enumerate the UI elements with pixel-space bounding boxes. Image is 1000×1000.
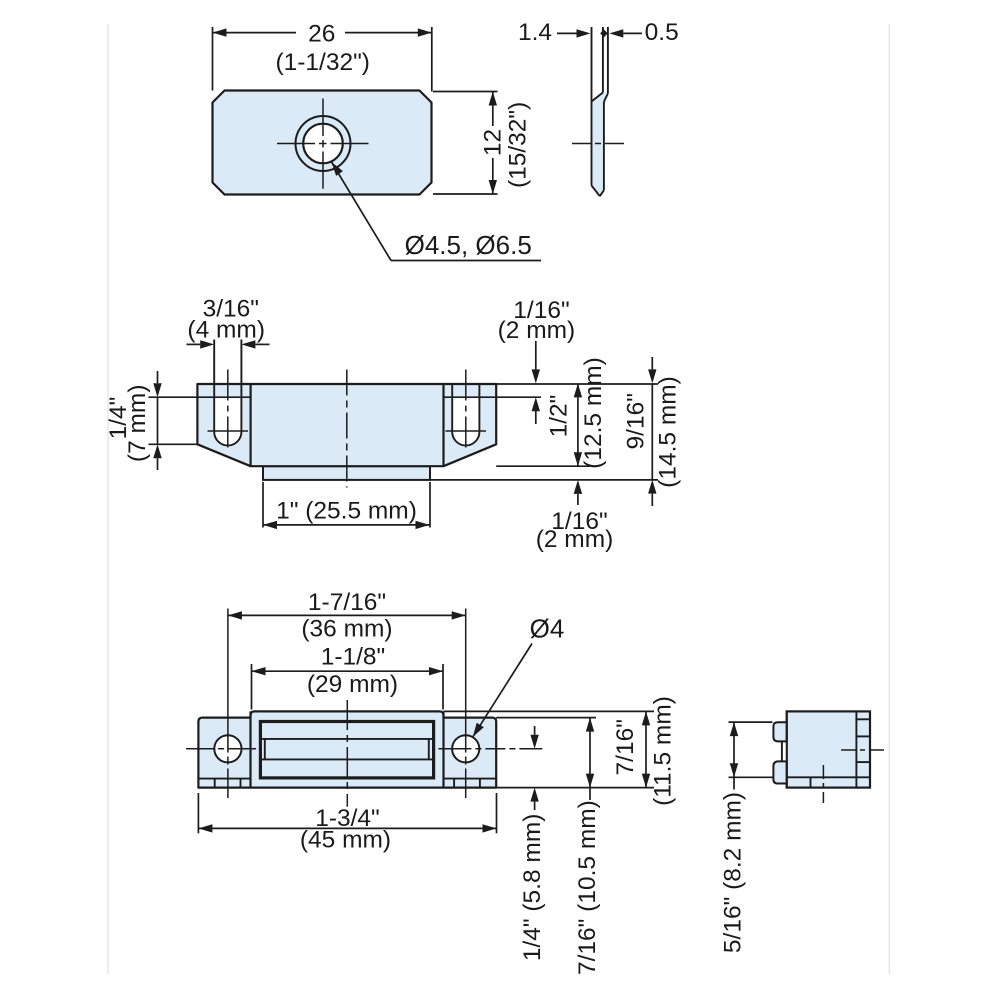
end view main block xyxy=(787,711,870,787)
center section side edges xyxy=(251,711,444,787)
flange base lines xyxy=(198,778,496,780)
leader to hole: Ø4.5, Ø6.5 xyxy=(332,162,542,261)
plate profile inner line (1.4/0.5 boundary) xyxy=(602,27,604,93)
left hole vertical centerline (36mm extension) xyxy=(227,609,229,799)
svg-text:(11.5 mm): (11.5 mm) xyxy=(650,696,677,806)
left slot vertical centerline xyxy=(227,370,229,453)
plate profile left edge xyxy=(591,27,593,186)
dimension 1.4 xyxy=(518,19,591,46)
hole inner circle xyxy=(303,124,343,164)
left slot white fill xyxy=(214,398,241,445)
dimension 26 (1-1/32") xyxy=(213,21,432,92)
shared boundary diamond marker xyxy=(600,29,608,37)
left slot outline with extension lines xyxy=(214,340,241,446)
hole vertical centerline xyxy=(322,99,324,189)
slot marks in base strip (left) xyxy=(215,779,241,788)
end view horizontal centerline xyxy=(841,749,888,751)
dimension 1/4" (7 mm) left xyxy=(105,371,197,470)
left screw hole xyxy=(214,735,241,762)
base divider vertical xyxy=(810,777,812,787)
svg-text:(4 mm): (4 mm) xyxy=(187,316,265,343)
right hole horizontal centerline + 5.8mm extension xyxy=(438,748,542,750)
svg-text:1/2": 1/2" xyxy=(545,395,572,438)
dimension 1-3/4" (45 mm) xyxy=(198,793,496,853)
flange top hook xyxy=(773,722,786,741)
svg-text:5/16" (8.2 mm): 5/16" (8.2 mm) xyxy=(720,792,747,953)
svg-text:1.4: 1.4 xyxy=(518,19,552,46)
magnet stack edge line xyxy=(855,711,857,787)
svg-text:7/16" (10.5 mm): 7/16" (10.5 mm) xyxy=(574,800,601,975)
svg-text:7/16": 7/16" xyxy=(612,719,639,775)
left hole horizontal centerline xyxy=(186,748,256,750)
svg-text:1" (25.5 mm): 1" (25.5 mm) xyxy=(276,498,417,525)
svg-text:(7 mm): (7 mm) xyxy=(124,385,151,463)
right slot center cross tick xyxy=(446,430,487,432)
svg-text:9/16": 9/16" xyxy=(623,393,650,449)
dimension 1" (25.5 mm) xyxy=(263,482,430,529)
center top edge right extension (11.5mm) xyxy=(444,710,655,712)
svg-text:Ø4.5, Ø6.5: Ø4.5, Ø6.5 xyxy=(405,230,532,260)
dimension 9/16" (14.5 mm) xyxy=(623,357,682,506)
magnet top plate line xyxy=(262,738,433,740)
svg-text:(15/32"): (15/32") xyxy=(505,102,532,188)
svg-text:(1-1/32"): (1-1/32") xyxy=(275,49,369,76)
dimension 7/16" (11.5 mm) xyxy=(612,696,676,806)
flange top edge right extension (10.5mm) xyxy=(496,717,596,719)
dimension 12 (15/32") xyxy=(433,92,532,195)
dimension 5/16" (8.2 mm) xyxy=(720,722,773,953)
svg-text:26: 26 xyxy=(308,21,335,48)
profile horizontal centerline xyxy=(572,143,624,145)
right slot white fill xyxy=(452,398,479,445)
dimension 1/4" (5.8 mm) xyxy=(519,726,546,961)
svg-text:(2 mm): (2 mm) xyxy=(498,317,576,344)
body top edge right extension xyxy=(496,383,658,385)
svg-text:(36 mm): (36 mm) xyxy=(301,615,392,642)
profile lower right edge xyxy=(603,102,605,191)
dimension 7/16" (10.5 mm) xyxy=(574,718,601,975)
protrusion bottom right extension xyxy=(430,479,658,481)
flange bottom hook xyxy=(773,761,786,783)
right hole vertical centerline (36mm extension) xyxy=(465,609,467,799)
faint page border line xyxy=(108,24,889,974)
magnet stack divider lines xyxy=(856,719,870,762)
hole outer circle (countersink) xyxy=(296,116,351,171)
dimension 3/16" (4 mm) xyxy=(187,295,270,348)
catch front silhouette xyxy=(198,711,496,787)
dimension 0.5 xyxy=(609,19,678,46)
body bottom edge right extension xyxy=(496,465,590,467)
bottom protrusion (magnet housing step) xyxy=(263,466,430,480)
left flange step line + 7mm extension xyxy=(149,396,251,398)
body vertical centerline xyxy=(346,370,348,488)
svg-text:0.5: 0.5 xyxy=(645,19,679,46)
magnet side inset lines xyxy=(265,739,429,760)
hole horizontal centerline xyxy=(277,143,369,145)
plate profile lower section fill xyxy=(592,93,608,196)
right flange inner edge xyxy=(442,384,444,466)
left flange inner edge xyxy=(250,384,252,466)
slot marks in base strip (right) xyxy=(454,779,480,788)
base bottom edge right extension xyxy=(496,787,654,789)
magnet assembly outer thick rect xyxy=(260,722,433,778)
dimension 1/2" (12.5 mm) xyxy=(545,357,607,469)
catch body outline xyxy=(197,384,496,466)
svg-text:12: 12 xyxy=(479,129,506,156)
right slot vertical centerline xyxy=(465,370,467,453)
dimension 1-1/8" (29 mm) xyxy=(252,643,444,709)
block left edge redraw xyxy=(786,711,788,787)
profile bottom chamfer xyxy=(592,186,604,197)
svg-text:Ø4: Ø4 xyxy=(530,614,565,644)
slot channel left wall xyxy=(781,741,783,761)
end view vertical centerline xyxy=(822,765,824,803)
slot channel white xyxy=(782,741,787,761)
svg-text:1-7/16": 1-7/16" xyxy=(308,589,386,616)
right screw hole xyxy=(452,735,479,762)
right slot outline xyxy=(452,384,479,445)
svg-text:(45 mm): (45 mm) xyxy=(300,826,391,853)
svg-text:1-1/8": 1-1/8" xyxy=(321,643,386,670)
svg-text:(29 mm): (29 mm) xyxy=(307,671,398,698)
left slot center cross tick xyxy=(208,430,249,432)
plate profile right edge top xyxy=(607,27,609,94)
leader to hole: Ø4 xyxy=(473,614,565,737)
svg-text:1/4" (5.8 mm): 1/4" (5.8 mm) xyxy=(519,814,546,962)
magnet bottom plate line xyxy=(262,758,433,760)
base top line xyxy=(787,776,870,778)
svg-text:(14.5 mm): (14.5 mm) xyxy=(655,376,682,488)
profile transition chamfer lines xyxy=(592,93,608,102)
svg-text:(2 mm): (2 mm) xyxy=(536,526,614,553)
right flange step line + 2mm extension xyxy=(444,396,542,398)
dimension 1-7/16" (36 mm) xyxy=(228,589,466,643)
front view vertical centerline xyxy=(346,700,348,807)
dimension 1/16" (2 mm) bottom xyxy=(536,480,614,553)
dimension 1/16" (2 mm) top right xyxy=(498,297,576,424)
strike plate body xyxy=(213,91,432,195)
svg-text:(12.5 mm): (12.5 mm) xyxy=(580,357,607,469)
